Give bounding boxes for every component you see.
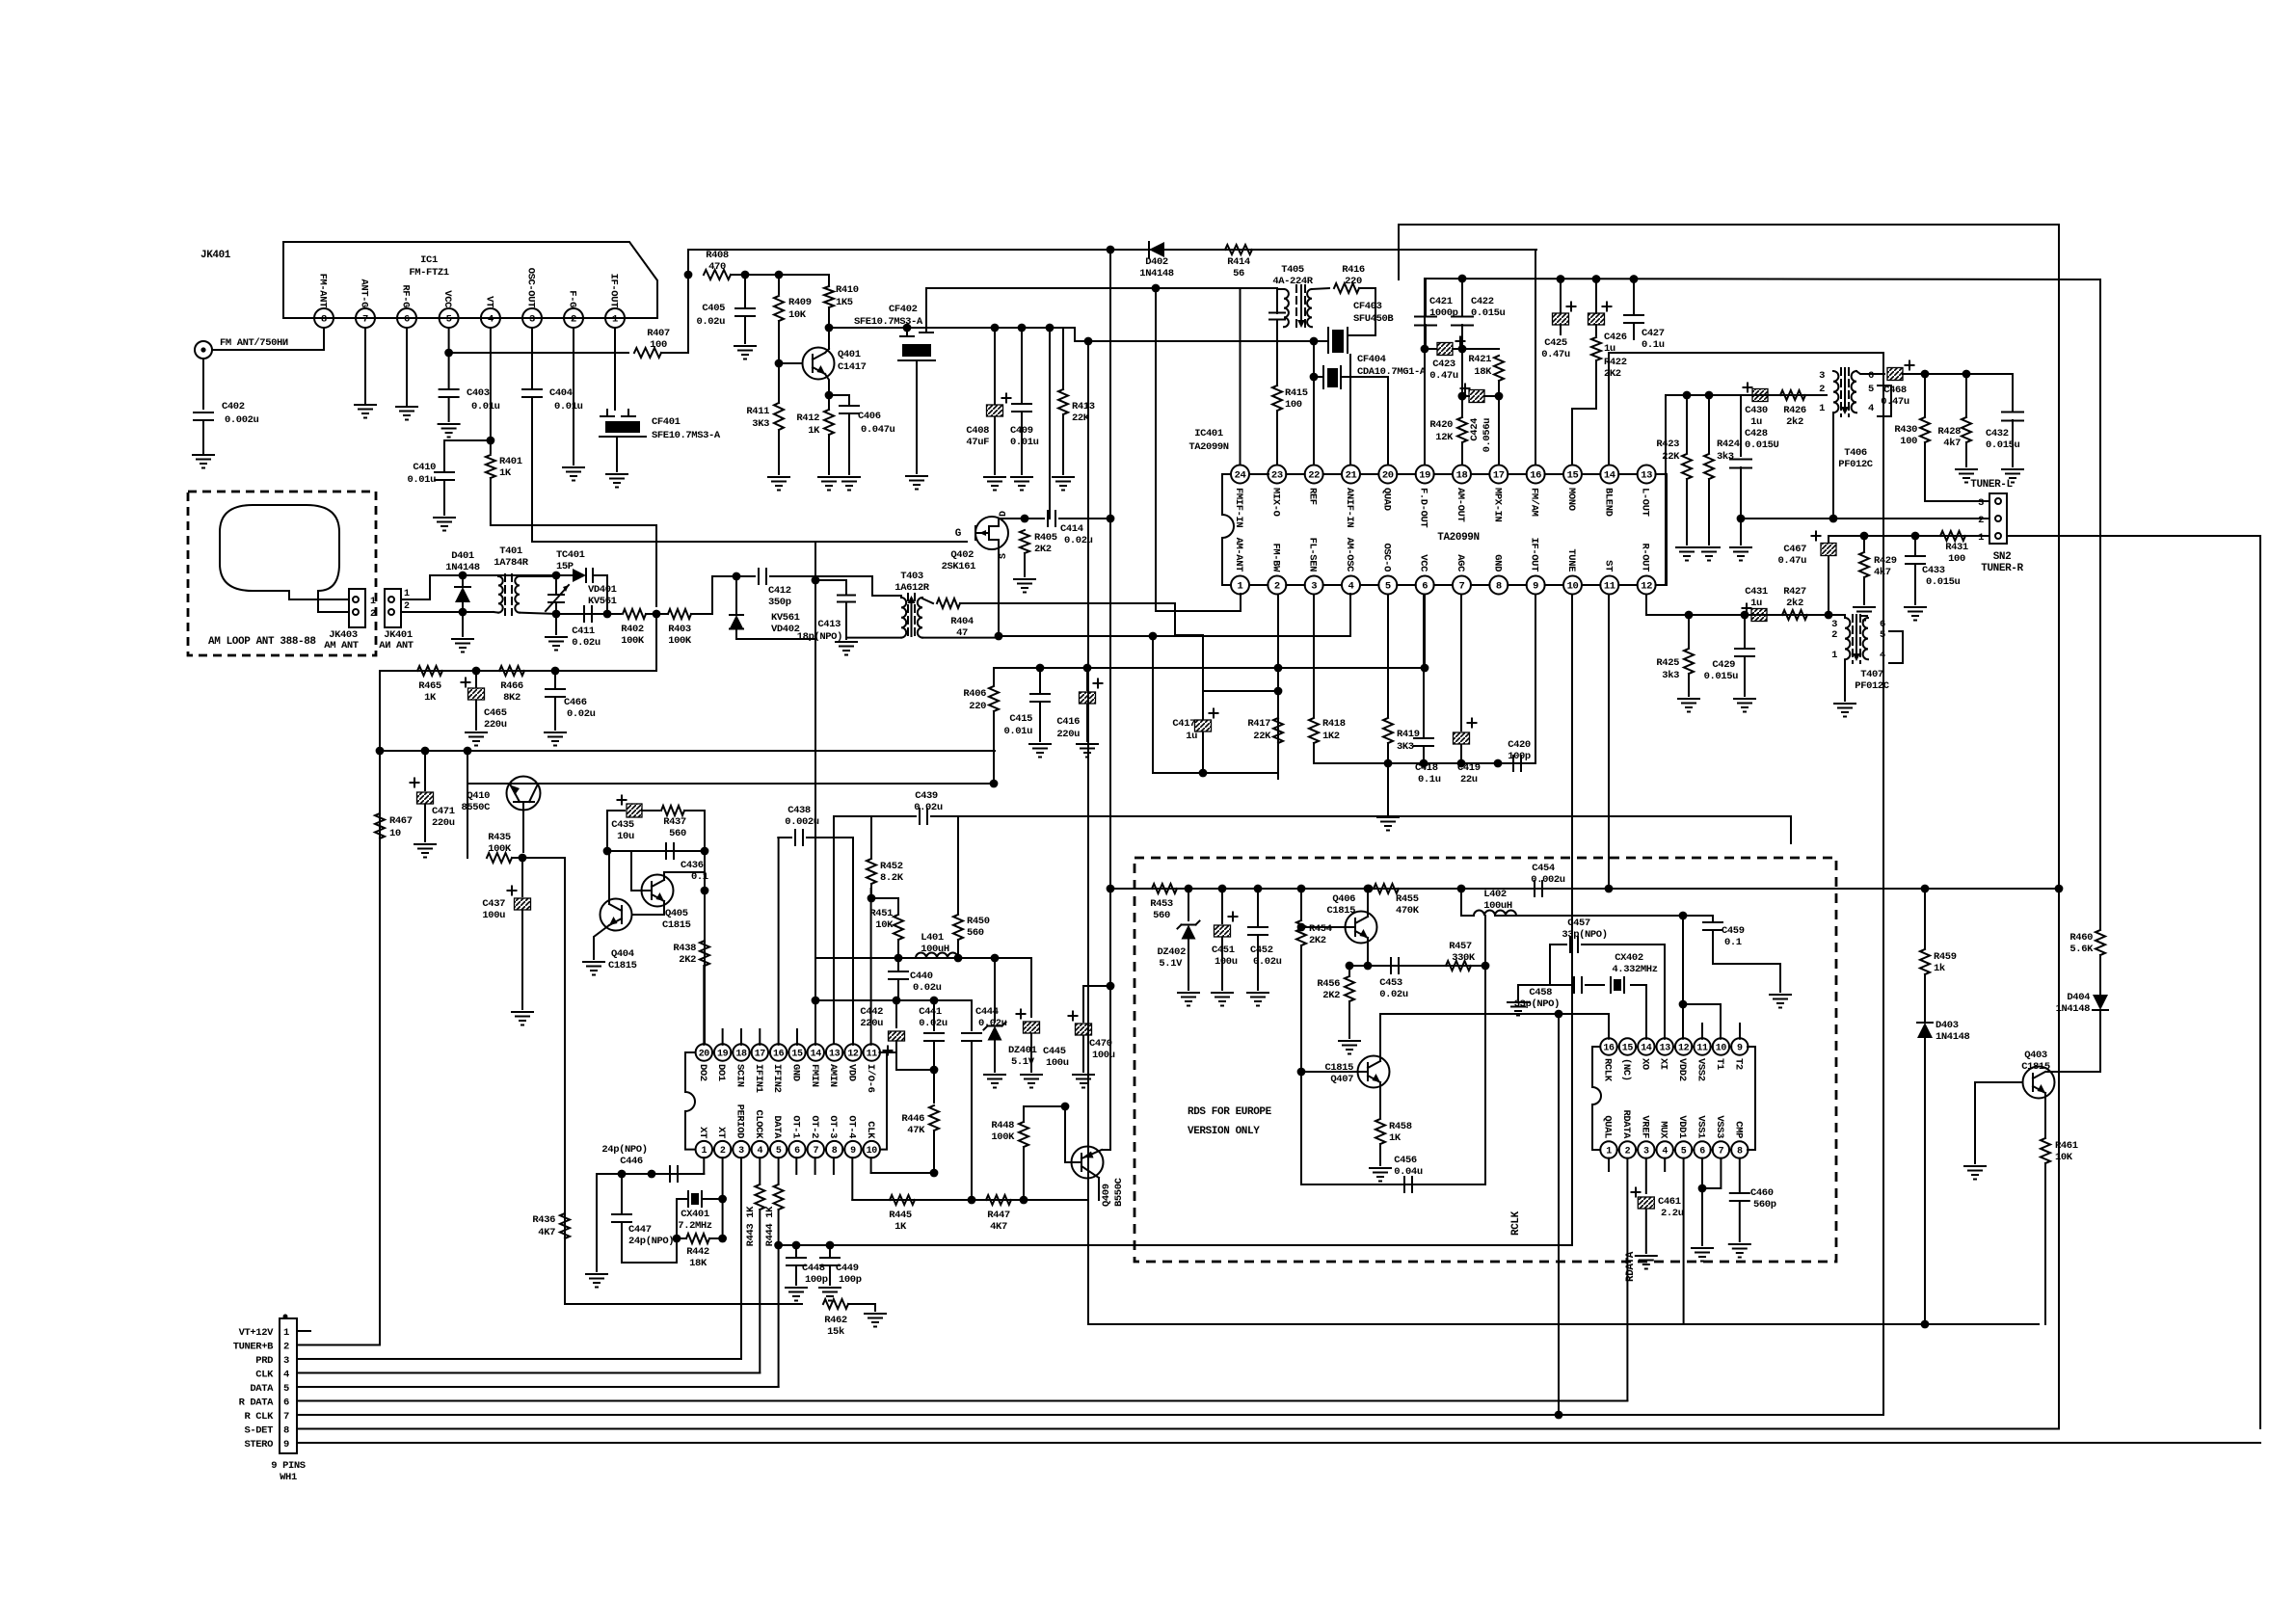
svg-text:2.2u: 2.2u	[1661, 1208, 1684, 1219]
wire T405 top right to R416	[1312, 288, 1329, 289]
IC401 pin 1	[1231, 576, 1249, 595]
IC403 pin 7	[1713, 1141, 1729, 1157]
transistor Q406 C1815	[1346, 912, 1377, 944]
transformer T407 PF012C	[1845, 618, 1850, 659]
svg-text:2: 2	[404, 601, 410, 612]
svg-text:1: 1	[1819, 403, 1825, 414]
capacitor C435 10u electrolytic	[627, 804, 642, 817]
svg-text:16: 16	[1530, 470, 1541, 482]
wire rds rail segs	[1177, 888, 1361, 890]
svg-text:SFU450B: SFU450B	[1353, 313, 1394, 325]
IC402 bottom chord	[768, 1149, 770, 1151]
svg-text:R410: R410	[836, 284, 859, 296]
ground C416	[1077, 743, 1098, 745]
resistor R405 2K2	[1020, 530, 1029, 553]
svg-text:100u: 100u	[1092, 1050, 1115, 1061]
svg-text:FMIF-IN: FMIF-IN	[1233, 488, 1244, 527]
resistor R444 1K	[778, 1157, 780, 1184]
wire R444 down	[778, 1210, 780, 1387]
svg-text:1: 1	[1978, 532, 1984, 544]
svg-text:1k: 1k	[1934, 963, 1945, 974]
wire emitter line y1002	[1349, 965, 1485, 967]
resistor R421 18K	[1494, 356, 1504, 381]
IC403 pin 11	[1694, 1038, 1710, 1054]
svg-text:0.02u: 0.02u	[696, 316, 725, 328]
svg-text:PF012C: PF012C	[1838, 459, 1874, 470]
IC403 pin 15	[1619, 1038, 1636, 1054]
wire R443 down	[759, 1210, 761, 1373]
capacitor C431 1u electrolytic	[1751, 609, 1767, 622]
resistor R407	[634, 348, 661, 358]
IC401 pin 21	[1342, 466, 1360, 484]
ground VSS1	[1692, 1247, 1713, 1249]
svg-text:T2: T2	[1732, 1058, 1744, 1070]
svg-text:C403: C403	[467, 387, 490, 399]
svg-text:5: 5	[1681, 1147, 1687, 1157]
capacitor C415 0.01u	[1039, 668, 1041, 692]
transistor Q410 8550C	[507, 777, 541, 811]
svg-text:R407: R407	[647, 328, 670, 339]
svg-text:B550C: B550C	[1113, 1177, 1125, 1207]
wire antenna to pin8	[212, 328, 324, 350]
svg-text:0.47u: 0.47u	[1777, 555, 1806, 567]
wire pin6 VSS1 drop	[1701, 1158, 1703, 1245]
svg-text:C412: C412	[768, 585, 791, 597]
svg-text:2: 2	[720, 1146, 726, 1157]
svg-text:1K: 1K	[499, 467, 512, 479]
svg-text:0.01u: 0.01u	[554, 401, 583, 412]
ground R423	[1676, 546, 1697, 548]
svg-text:100u: 100u	[1046, 1057, 1069, 1069]
ground rail gnd	[1377, 816, 1399, 818]
wire R451 bottom	[897, 940, 899, 958]
svg-text:Q406: Q406	[1332, 893, 1355, 905]
svg-text:3: 3	[283, 1355, 289, 1367]
svg-text:14: 14	[1604, 470, 1615, 482]
svg-text:1: 1	[404, 589, 410, 599]
resistor R445 1K	[890, 1195, 915, 1205]
svg-text:4k7: 4k7	[1943, 438, 1961, 449]
wire pin7 down	[364, 328, 366, 403]
svg-text:IFIN1: IFIN1	[753, 1064, 764, 1093]
IC403 top chord	[1636, 1046, 1638, 1048]
IC402 pin 12	[844, 1044, 861, 1060]
svg-text:20: 20	[1382, 470, 1394, 482]
svg-text:ANIF-IN: ANIF-IN	[1344, 488, 1355, 527]
inductor L401 100uH	[916, 953, 958, 958]
svg-text:220u: 220u	[432, 817, 455, 829]
ground C405	[734, 345, 756, 347]
svg-text:1A612R: 1A612R	[894, 582, 930, 594]
svg-text:R453: R453	[1150, 898, 1173, 910]
svg-text:560p: 560p	[1753, 1199, 1776, 1211]
svg-text:47uF: 47uF	[966, 437, 989, 448]
svg-text:DZ401: DZ401	[1008, 1045, 1037, 1056]
transistor Q405 C1815	[642, 875, 674, 907]
capacitor C438 0.002u	[794, 830, 796, 845]
resistor R453 560	[1152, 884, 1177, 893]
wire R450 bottom	[957, 940, 959, 958]
IC402 top chord	[712, 1051, 714, 1053]
svg-text:RCLK: RCLK	[1510, 1211, 1522, 1236]
wire R413 bottom	[1062, 414, 1064, 474]
wire R423 gnd lead	[1686, 479, 1688, 545]
resistor R401	[486, 455, 495, 478]
ground C409	[1011, 476, 1032, 478]
svg-text:C420: C420	[1508, 739, 1531, 751]
wire R411 leads	[778, 363, 780, 403]
capacitor C460 560p	[1730, 1192, 1749, 1194]
wire pin5 VDD1 drop	[1683, 1158, 1685, 1324]
capacitor C426 1u electrolytic	[1595, 279, 1597, 314]
capacitor C449 100p	[829, 1245, 831, 1256]
wire pin10 TUNE drop	[1571, 595, 1573, 1246]
wire bottom rail y802	[1153, 772, 1278, 774]
wire pin17 riser	[1498, 396, 1500, 466]
ground R429	[1854, 606, 1875, 608]
wire C435-R437 seg	[642, 810, 659, 811]
svg-text:1K: 1K	[1389, 1132, 1402, 1144]
wire pin15 riser	[1571, 409, 1573, 466]
svg-text:0.002u: 0.002u	[225, 414, 259, 426]
wire C402 to ground	[202, 420, 204, 453]
wire Q404 emitter	[594, 925, 609, 959]
svg-text:RCLK: RCLK	[1602, 1058, 1614, 1082]
svg-text:AGC: AGC	[1455, 554, 1466, 572]
IC403 bottom chord	[1655, 1149, 1657, 1151]
svg-text:(NC): (NC)	[1620, 1058, 1632, 1081]
svg-text:1: 1	[701, 1146, 707, 1157]
svg-text:5: 5	[1868, 384, 1874, 395]
wire T403 right bottom	[922, 637, 999, 639]
IC401 pin 9	[1527, 576, 1545, 595]
svg-text:FM/AM: FM/AM	[1529, 488, 1540, 517]
svg-text:22u: 22u	[1460, 774, 1478, 785]
svg-text:FL-SEN: FL-SEN	[1307, 538, 1319, 572]
svg-text:0.015u: 0.015u	[1926, 576, 1961, 588]
wire Q407 collector to RCLK pin	[1380, 1014, 1609, 1061]
svg-text:VDD2: VDD2	[1676, 1058, 1688, 1081]
svg-text:FM ANT/750НИ: FM ANT/750НИ	[220, 337, 288, 349]
ground C403	[439, 423, 460, 425]
svg-text:T407: T407	[1860, 669, 1883, 680]
ground R425	[1678, 698, 1699, 700]
svg-text:33p(NPO): 33p(NPO)	[1514, 998, 1560, 1010]
svg-text:I/O-6: I/O-6	[865, 1064, 876, 1093]
svg-text:100K: 100K	[668, 635, 692, 647]
wire io6 link	[880, 1051, 897, 1053]
IC401 pin 17	[1489, 466, 1508, 484]
svg-text:3k3: 3k3	[1662, 670, 1679, 681]
capacitor C453 0.02u	[1390, 958, 1392, 973]
wire xtal rail y1218	[597, 1173, 704, 1175]
ground T407	[1834, 703, 1855, 705]
svg-text:AM-OSC: AM-OSC	[1344, 538, 1355, 573]
svg-text:VT: VT	[483, 296, 494, 307]
svg-text:5: 5	[776, 1146, 782, 1157]
wire y813 rail	[467, 783, 995, 785]
svg-text:2: 2	[1625, 1147, 1631, 1157]
svg-text:R462: R462	[824, 1315, 847, 1326]
svg-text:4k7: 4k7	[1874, 567, 1891, 578]
svg-text:4: 4	[1868, 403, 1874, 414]
IC401 top row chord	[1508, 473, 1526, 475]
capacitor C466 0.02u	[554, 671, 556, 688]
svg-text:DO1: DO1	[715, 1064, 727, 1081]
svg-text:6: 6	[404, 314, 410, 326]
svg-text:C460: C460	[1750, 1187, 1774, 1199]
svg-text:R404: R404	[950, 616, 974, 627]
transistor Q404 C1815	[601, 899, 632, 931]
wire pin13 XI riser	[1664, 945, 1666, 1039]
svg-text:R420: R420	[1429, 419, 1453, 431]
svg-text:R436: R436	[532, 1214, 555, 1226]
IC403 bottom chord	[1692, 1149, 1694, 1151]
IC403 pin 9	[1731, 1038, 1748, 1054]
IC403 top chord	[1617, 1046, 1619, 1048]
wire x1954 vertical	[1882, 353, 1884, 1415]
wire pin19 riser	[1424, 279, 1426, 466]
resistor R422 2K2	[1591, 337, 1601, 360]
connector WH1 top tick	[283, 1315, 288, 1319]
wire pin3 PERIOD drop	[740, 1157, 742, 1359]
svg-text:R428: R428	[1937, 426, 1961, 438]
svg-text:R422: R422	[1604, 357, 1627, 368]
IC401 top row chord	[1397, 473, 1415, 475]
svg-text:C411: C411	[572, 625, 595, 637]
capacitor C418 0.1u	[1423, 595, 1425, 737]
svg-text:2: 2	[283, 1342, 289, 1353]
svg-text:0.002u: 0.002u	[1531, 874, 1565, 886]
IC403 pin 2	[1619, 1141, 1636, 1157]
svg-text:D402: D402	[1145, 256, 1168, 268]
IC402 top chord	[768, 1051, 770, 1053]
IC403 pin 5	[1675, 1141, 1692, 1157]
svg-text:9: 9	[1737, 1044, 1743, 1054]
IC401 top row chord	[1323, 473, 1342, 475]
wire R448 bottom	[1023, 1147, 1025, 1200]
wire x1196 riser	[1152, 636, 1154, 773]
svg-text:R426: R426	[1783, 405, 1806, 416]
svg-text:8: 8	[1737, 1147, 1743, 1157]
svg-text:R411: R411	[746, 406, 769, 417]
svg-text:S-DET: S-DET	[244, 1425, 273, 1437]
svg-text:DATA: DATA	[771, 1115, 783, 1139]
wire fm lc rail y1038	[815, 999, 972, 1001]
svg-text:220: 220	[969, 701, 986, 712]
IC401 pin 10	[1563, 576, 1582, 595]
wire VT drop to AM row	[655, 614, 657, 671]
connector FM ANT/750HM	[195, 341, 212, 359]
svg-text:24p(NPO): 24p(NPO)	[601, 1144, 647, 1156]
resistor R466 8K2	[499, 666, 524, 676]
IC401 pin 19	[1416, 466, 1434, 484]
wire R410 to collector	[828, 307, 830, 349]
resistor R431 100	[1940, 531, 1965, 541]
IC403 bottom chord	[1711, 1149, 1713, 1151]
svg-text:0.47u: 0.47u	[1881, 396, 1909, 408]
IC403 pin 3	[1638, 1141, 1654, 1157]
svg-text:C404: C404	[549, 387, 573, 399]
svg-text:560: 560	[1153, 910, 1170, 921]
wire left vertical x394	[379, 671, 381, 1344]
wire VT branch left	[444, 440, 491, 472]
svg-text:0.47u: 0.47u	[1429, 370, 1458, 382]
IC403 pin 12	[1675, 1038, 1692, 1054]
wire bus R CLK	[297, 1414, 1883, 1416]
wire C421-C423 seg	[1425, 348, 1436, 350]
IC402 pin 14	[808, 1044, 824, 1060]
svg-text:Q410: Q410	[467, 790, 490, 802]
svg-text:5: 5	[446, 314, 452, 326]
svg-text:C438: C438	[788, 805, 811, 816]
capacitor C430 1u electrolytic	[1752, 389, 1768, 402]
wire Q409 base line	[1064, 1106, 1066, 1162]
svg-text:100p: 100p	[805, 1274, 828, 1286]
svg-text:C457: C457	[1567, 918, 1590, 929]
svg-text:MIX-O: MIX-O	[1269, 488, 1281, 517]
ground R412	[818, 476, 840, 478]
svg-text:OT-1: OT-1	[789, 1115, 801, 1138]
wire R-OUT rail y638	[1645, 595, 1647, 616]
svg-text:XO: XO	[1639, 1058, 1650, 1070]
svg-text:4: 4	[757, 1146, 762, 1157]
wire R420 to pin18	[1461, 442, 1463, 466]
wire C439 line	[834, 815, 916, 817]
wire C438 right to VDD	[807, 838, 853, 1045]
IC403 pin 10	[1713, 1038, 1729, 1054]
wire R462 right	[848, 1303, 875, 1305]
capacitor C448 100p	[795, 1245, 797, 1256]
svg-text:8.2K: 8.2K	[880, 872, 904, 884]
svg-text:2: 2	[1274, 581, 1280, 593]
IC402 pin 4	[752, 1141, 768, 1157]
svg-text:R412: R412	[796, 412, 819, 424]
IC401 bottom row chord	[1323, 584, 1342, 586]
capacitor C413 18p	[845, 580, 847, 595]
svg-text:2SK161: 2SK161	[942, 561, 976, 572]
capacitor C406	[848, 395, 850, 405]
svg-text:R438: R438	[673, 943, 696, 954]
svg-text:C461: C461	[1658, 1196, 1681, 1208]
svg-text:OSC-O: OSC-O	[1380, 543, 1392, 572]
capacitor C456 0.04u	[1403, 1177, 1405, 1192]
svg-text:12: 12	[847, 1050, 859, 1060]
wire x2345 vertical	[2007, 535, 2260, 537]
resistor R409	[774, 296, 784, 321]
svg-text:9 PINS: 9 PINS	[271, 1460, 306, 1472]
svg-text:9: 9	[283, 1439, 289, 1450]
resistor R452 8.2K	[870, 816, 872, 858]
wire pin21 riser	[1349, 355, 1351, 466]
resistor R447 4K7	[986, 1195, 1011, 1205]
svg-text:C415: C415	[1009, 713, 1032, 725]
ground R456	[1339, 1040, 1360, 1042]
wire R461 down	[2044, 1163, 2046, 1324]
wire ot stubs	[795, 1157, 797, 1174]
resistor R438 2K2	[700, 941, 709, 966]
svg-text:0.015u: 0.015u	[1471, 307, 1506, 319]
wire C410 to ground	[443, 480, 445, 515]
IC401 bottom row chord	[1508, 584, 1526, 586]
svg-text:7: 7	[1459, 581, 1465, 593]
svg-text:VDD1: VDD1	[1676, 1115, 1688, 1138]
svg-text:C405: C405	[702, 303, 725, 314]
wire D403 down	[1924, 1038, 1926, 1324]
wire C459 gnd link	[1713, 964, 1780, 992]
ground R411	[768, 476, 789, 478]
svg-text:QUAL: QUAL	[1602, 1115, 1614, 1138]
svg-text:C430: C430	[1745, 405, 1768, 416]
wire pin12 VDD2 riser	[1682, 916, 1684, 1039]
svg-text:R402: R402	[621, 624, 644, 635]
svg-text:C425: C425	[1544, 337, 1567, 349]
svg-text:RF-G: RF-G	[400, 284, 412, 307]
svg-text:8: 8	[283, 1425, 289, 1437]
dashed box RDS for Europe	[1135, 858, 1836, 1262]
svg-text:RDATA: RDATA	[1625, 1251, 1637, 1282]
wire Q407 emitter	[1379, 1082, 1381, 1118]
wire R422 bottom to pin15 rail	[1572, 360, 1596, 409]
wire R456 down	[1348, 1001, 1350, 1038]
wire WH1 pin1 stub	[297, 1330, 310, 1332]
wire x1089 to C414	[1049, 515, 1051, 519]
svg-text:L-OUT: L-OUT	[1640, 488, 1651, 517]
svg-text:PRD: PRD	[255, 1355, 273, 1367]
wire pin9 T2 stub	[1739, 1024, 1741, 1039]
svg-text:220u: 220u	[1056, 729, 1080, 740]
wire T401 right top	[520, 575, 556, 577]
wire C405 to ground	[744, 316, 746, 343]
zener DZ401 5.1V	[994, 958, 996, 1022]
svg-text:13: 13	[1641, 470, 1652, 482]
capacitor C470 100u electrolytic	[1076, 1024, 1092, 1035]
svg-text:C418: C418	[1415, 762, 1438, 774]
svg-text:470: 470	[708, 261, 726, 273]
svg-text:C402: C402	[222, 401, 245, 412]
svg-text:22K: 22K	[1662, 451, 1680, 463]
IC403 bottom chord	[1729, 1149, 1731, 1151]
svg-text:T1: T1	[1714, 1058, 1725, 1070]
IC403 pin 4	[1657, 1141, 1673, 1157]
svg-text:0.02u: 0.02u	[914, 802, 943, 813]
svg-text:100: 100	[1900, 436, 1917, 447]
svg-text:VSS1: VSS1	[1695, 1115, 1707, 1138]
diode D402 1N4148	[1149, 242, 1164, 257]
svg-text:24: 24	[1235, 470, 1246, 482]
wire R424 gnd lead	[1708, 479, 1710, 545]
wire top rail y289	[1425, 279, 2100, 279]
svg-text:ST: ST	[1602, 560, 1614, 572]
IC402 bottom chord	[862, 1149, 864, 1151]
wire JK401 pin2 rail	[401, 611, 494, 613]
wire am-osc line y660	[999, 635, 1350, 637]
IC401 pin 2	[1268, 576, 1286, 595]
svg-text:100: 100	[650, 339, 667, 351]
IC402 pin 9	[844, 1141, 861, 1157]
svg-text:23: 23	[1271, 470, 1283, 482]
IC401 pin 13	[1638, 466, 1656, 484]
svg-text:0.015u: 0.015u	[1704, 671, 1739, 682]
wire C470 link	[1083, 986, 1110, 1022]
varactor VD402 KV561	[730, 615, 743, 628]
svg-text:АИ ANT: АИ ANT	[379, 640, 414, 652]
ground C437	[512, 1011, 533, 1013]
wire pin14 FMIN riser	[814, 1000, 816, 1045]
wire bus CLK	[297, 1372, 760, 1374]
IC402 pin 2	[714, 1141, 731, 1157]
resistor R408	[704, 270, 731, 279]
